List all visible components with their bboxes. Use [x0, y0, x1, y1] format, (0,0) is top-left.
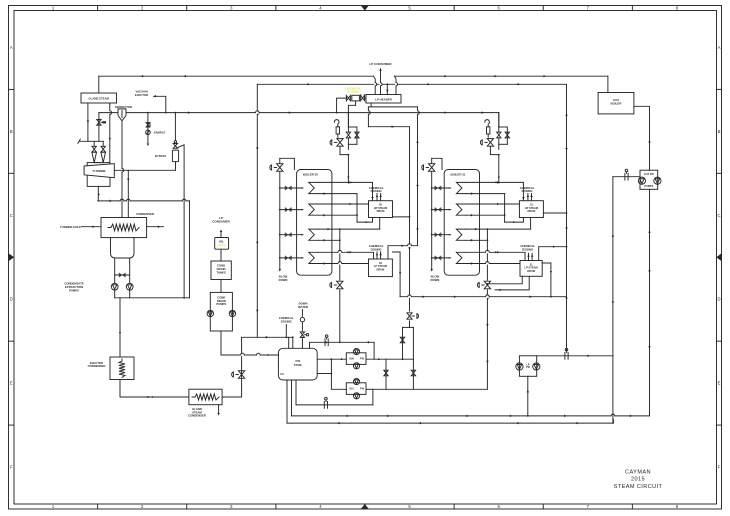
wire downcomer HP boiler 30 [356, 194, 358, 223]
strainer on spill row [323, 402, 325, 409]
svg-text:AUX FW: AUX FW [644, 173, 655, 176]
svg-text:1: 1 [52, 5, 55, 10]
wire coil4 return boiler 30 [318, 263, 368, 265]
svg-text:8: 8 [676, 5, 679, 10]
wire bypass relief diagonal [178, 145, 185, 148]
wire lower spill row [296, 404, 373, 406]
wire coil1 return boiler 30 [318, 193, 357, 195]
steam station 31 parallel valves [499, 126, 508, 128]
svg-text:D: D [10, 297, 13, 302]
wire dump drop to condenser [127, 170, 129, 217]
valve fw control [407, 313, 412, 319]
LP steam drum 30 [369, 259, 393, 277]
aux fw pumps box [640, 170, 658, 189]
svg-text:3: 3 [230, 5, 233, 10]
svg-text:PUMPS: PUMPS [216, 302, 226, 306]
boiler 30 feed row 1 [280, 187, 303, 189]
wire LP consumer riser [380, 69, 382, 95]
boiler 31 feed row 3 [432, 234, 451, 236]
ejector condenser box [110, 357, 134, 380]
sample cooler branch [147, 113, 149, 143]
svg-text:BOILER: BOILER [611, 102, 623, 106]
wire coil4 return boiler 31 [466, 263, 520, 265]
wire aux fw suction from bus A [649, 189, 651, 416]
svg-text:4: 4 [319, 504, 322, 509]
wire fw tank bottom drops [286, 380, 288, 423]
svg-text:5: 5 [408, 5, 411, 10]
svg-text:B: B [10, 129, 13, 134]
wire bus B end riser jog [612, 420, 614, 424]
boiler 31 coil 2 [456, 204, 466, 215]
svg-text:BYPASS: BYPASS [155, 154, 166, 158]
wire lp header drop to east vertical [368, 126, 409, 128]
wire boiler31 drain to fw bus [486, 290, 488, 390]
valve fw station left [400, 337, 404, 343]
HP steam drum 30 [369, 201, 393, 218]
steam station 30 parallel valves [348, 126, 357, 128]
fw pump group 30 [346, 353, 366, 365]
svg-text:6: 6 [498, 504, 501, 509]
wire lp fw discharge header [537, 355, 613, 357]
svg-text:E: E [718, 381, 721, 386]
svg-text:DOSING: DOSING [281, 320, 292, 324]
wire boiler drain boiler 31 [486, 229, 488, 280]
condenser hotwell [111, 238, 135, 258]
svg-text:TURBINE: TURBINE [93, 169, 106, 173]
chemical dosing arrows HP 31 [527, 194, 529, 201]
wire turbine to bypass link line [115, 169, 176, 171]
blowdown valve boiler 30 [277, 164, 283, 172]
wire LP drum31 bottom circulation B [495, 276, 529, 290]
svg-text:LP HEADER: LP HEADER [375, 97, 393, 101]
valve town water [300, 332, 304, 337]
svg-text:SEPERATOR: SEPERATOR [115, 105, 132, 109]
wire HP drum30 steam outlet [393, 216, 410, 218]
svg-text:2: 2 [141, 504, 144, 509]
wire L1 east drop to header [394, 76, 396, 94]
wire gland steam down leg east [109, 103, 111, 163]
town water meter [301, 310, 303, 317]
wire blowdown line boiler 30 [279, 171, 281, 269]
svg-text:WATER: WATER [298, 305, 308, 309]
wire main steam header L1 west [99, 75, 374, 77]
wire coil3 return boiler 30 [318, 239, 340, 241]
valve gsc riser [238, 371, 244, 379]
wire coil2 return boiler 30 [318, 214, 357, 216]
fw pump group 31 [346, 383, 366, 395]
chemical dosing arrows HP 30 [376, 194, 378, 201]
frame zone ticks top/bottom [97, 6, 99, 11]
wire coil1 riser boiler 30 [318, 182, 372, 200]
wire LP drum31 bottom circulation A [487, 276, 522, 284]
wire blowdown line boiler 31 [431, 171, 433, 269]
turbine casing [87, 163, 110, 187]
svg-text:F: F [10, 465, 13, 470]
svg-text:TANKS: TANKS [216, 270, 226, 274]
svg-text:DRUM: DRUM [527, 269, 535, 273]
wire LP drum31 steam outlet [539, 247, 567, 261]
svg-text:U31: U31 [349, 388, 354, 391]
wire coil4 riser boiler 30 [318, 252, 373, 259]
wire turbine exhaust run to east [98, 200, 190, 202]
frame center triangle right [717, 253, 722, 261]
svg-text:STEAM CIRCUIT: STEAM CIRCUIT [614, 484, 663, 490]
svg-text:TANK: TANK [294, 363, 303, 367]
turbine inlet valves [93, 141, 95, 146]
wire downcomer HP boiler 31 [504, 194, 506, 223]
chemical dosing injector valve set [352, 95, 360, 101]
svg-text:LP CONSUMER: LP CONSUMER [369, 62, 392, 66]
valve fw crossover B [412, 359, 414, 389]
boiler 30 feed row 3 [280, 234, 303, 236]
boiler 30 coil 4 [309, 252, 319, 263]
wire hotwell to pumps [114, 258, 116, 283]
svg-text:SAMPLE: SAMPLE [154, 131, 166, 135]
wire coil1 riser boiler 31 [466, 182, 524, 200]
wire LP drum30 steam outlet [388, 246, 418, 259]
wire fw station split [403, 326, 414, 328]
wire boiler30 drain to recirc [339, 290, 341, 343]
valve station 30 control [337, 139, 343, 147]
LP steam drum 31 [520, 261, 542, 277]
boiler 31 coil 1 [456, 182, 466, 193]
wire fw recirc line [310, 341, 375, 343]
frame center triangle top [361, 6, 369, 11]
wire vacuum ejector branch [154, 96, 166, 112]
wire coil4 riser boiler 31 [466, 252, 525, 260]
wire separator drain to condenser [121, 121, 123, 218]
wire fw discharge bus [373, 388, 487, 390]
wire turbine exhaust [97, 186, 99, 201]
boiler 30 coil 1 [309, 182, 319, 193]
wire bypass relief drop to condensate x184.1 [183, 145, 185, 298]
wire HP drum31 steam outlet [543, 212, 566, 214]
svg-text:3: 3 [230, 504, 233, 509]
bypass valve [174, 141, 176, 143]
wire coil3 riser boiler 31 [466, 228, 531, 230]
steam station 31 reducing valve w/ pilot [498, 144, 500, 149]
boiler 31 feed row 4 [432, 257, 451, 259]
chemical dosing arrows LP 31 [528, 253, 530, 260]
valve station 31 control [487, 139, 493, 147]
blowdown valve boiler 31 [429, 164, 435, 172]
boiler 30 feed row 2 [280, 209, 303, 211]
wire injector down leg [355, 101, 357, 105]
frame center triangle bottom [361, 504, 369, 509]
steam station 31 inlet [498, 113, 500, 127]
wire boiler drain boiler 30 [339, 229, 341, 280]
valve gland steam supply [97, 120, 101, 126]
wire LP drum31 right link [542, 263, 551, 297]
wire gsc outlet to valve riser [222, 337, 242, 397]
wire bypass branch from main line [174, 113, 176, 141]
svg-text:BOILER 31: BOILER 31 [451, 173, 466, 177]
wire L1 drop to aux boiler [607, 76, 609, 92]
boiler 31 coil 3 [456, 229, 466, 240]
svg-text:CONDENSER: CONDENSER [88, 364, 106, 368]
wire main steam header L1 east [394, 75, 608, 77]
drain valve boiler 30 [337, 281, 343, 289]
FW tank [278, 348, 317, 380]
svg-text:D: D [717, 297, 720, 302]
boiler 31 vessel [444, 170, 479, 276]
svg-text:DRUM: DRUM [377, 209, 385, 213]
svg-text:EJECTOR: EJECTOR [135, 93, 148, 97]
svg-text:7: 7 [587, 504, 590, 509]
condenser tubes zigzag [108, 224, 139, 231]
svg-text:DOSING: DOSING [522, 248, 533, 252]
svg-text:B: B [718, 129, 721, 134]
steam station 30 inlet [347, 113, 349, 127]
svg-text:DRUM: DRUM [377, 267, 385, 271]
wire coil2 return boiler 31 [466, 214, 505, 216]
svg-text:BOILER 30: BOILER 30 [303, 173, 318, 177]
boiler 30 vessel [297, 170, 332, 276]
boiler 31 coil 4 [456, 252, 466, 263]
svg-text:DOWN: DOWN [279, 278, 288, 282]
gland steam condenser box [189, 389, 222, 405]
wire coil3 riser boiler 30 [318, 228, 379, 230]
wire aux boiler feed [634, 106, 650, 170]
svg-text:F: F [718, 465, 721, 470]
valve fw crossover A [385, 359, 387, 389]
svg-text:TURBINE HOLE: TURBINE HOLE [60, 225, 81, 229]
wire main steam feed drop [98, 113, 100, 142]
wire coil1 return boiler 31 [466, 193, 505, 195]
wire bottom bus B [287, 422, 613, 424]
boiler 30 coil 2 [309, 204, 319, 215]
wire coil2 riser boiler 31 [466, 203, 520, 205]
wire gland manifold with break [79, 140, 103, 142]
wire LP drum30 right link [392, 252, 400, 297]
gsc drain arrow [218, 405, 220, 413]
svg-text:6: 6 [498, 5, 501, 10]
svg-text:C: C [717, 213, 720, 218]
svg-text:8: 8 [676, 504, 679, 509]
wire oil heater top arrow [220, 232, 222, 238]
wire ejector condenser outlet [120, 380, 189, 398]
svg-text:PUMPS: PUMPS [69, 288, 79, 292]
svg-text:CONDENSER: CONDENSER [136, 212, 154, 216]
wire main steam to station31 corner [498, 113, 500, 127]
svg-text:A: A [10, 45, 13, 50]
svg-text:1: 1 [52, 504, 55, 509]
wire tanks to pumps [220, 280, 222, 293]
wire branch to pump 31 [331, 359, 346, 389]
wire fw tank recirc riser [309, 342, 311, 348]
steam station 30 reducing valve w/ pilot [347, 144, 349, 149]
svg-text:7: 7 [587, 5, 590, 10]
wire L1 drop to gland steam [98, 76, 100, 92]
svg-text:CONSUMER: CONSUMER [212, 220, 230, 224]
svg-text:PUMPS: PUMPS [644, 185, 653, 188]
wire LP steam riser B [417, 107, 419, 246]
drain valve boiler 31 [484, 281, 490, 289]
wire fw tank lower outlet [317, 373, 331, 375]
strainer on aux suction [624, 173, 626, 180]
svg-text:DOSING: DOSING [371, 248, 382, 252]
strainer on recirc [324, 339, 326, 346]
svg-text:FW: FW [526, 366, 530, 369]
svg-text:FW: FW [360, 388, 365, 391]
HP steam drum 31 [519, 201, 543, 218]
frame zone ticks left/right [9, 88, 15, 90]
svg-text:DOSING: DOSING [347, 90, 360, 94]
svg-text:FW: FW [360, 358, 365, 361]
wire header L2 [257, 83, 566, 85]
svg-text:2015: 2015 [631, 477, 645, 483]
wire riser x612.9 [612, 356, 614, 423]
svg-text:E: E [10, 381, 13, 386]
wire cond drain pumps to FW tank [221, 331, 278, 355]
wire injector inlet from main steam line [337, 98, 347, 113]
wire tank top entry stub B [292, 337, 294, 348]
condenser box [101, 218, 147, 238]
condensate extraction pumps [111, 283, 118, 290]
wire pump31 discharge [366, 388, 373, 390]
svg-text:2: 2 [141, 5, 144, 10]
wire LP header bottom drop [370, 103, 372, 107]
wire L2 feed stub to header [386, 84, 388, 94]
svg-text:4: 4 [319, 5, 322, 10]
wire drop at x189.5 [189, 201, 191, 298]
cond drain pumps box [210, 292, 232, 331]
wire fw tank outlet to pump 30 [317, 358, 346, 360]
svg-text:CAYMAN: CAYMAN [625, 470, 651, 476]
svg-text:CONDENSER: CONDENSER [188, 414, 206, 418]
boiler 30 coil 3 [309, 229, 319, 240]
wire coil2 riser boiler 30 [318, 203, 368, 205]
wire blowdown/drain header y296.7 [400, 296, 566, 298]
frame center triangle left [9, 253, 15, 261]
wire spill row up to pump2 discharge [372, 389, 374, 405]
LP header box [366, 95, 401, 104]
svg-text:5: 5 [408, 504, 411, 509]
turbine U1 body flag [84, 164, 114, 178]
aux boiler box [598, 93, 634, 114]
wire bottom bus A [292, 415, 650, 417]
wire lp fw suction [527, 376, 529, 416]
oil heaters box [215, 238, 229, 250]
strainer on discharge header [564, 352, 566, 359]
svg-text:HTRS: HTRS [218, 244, 226, 248]
wire chemical dosing to tank [285, 325, 287, 338]
wire main steam line y112.6 [99, 112, 118, 114]
svg-text:GLAND STEAM: GLAND STEAM [88, 97, 109, 101]
svg-text:A: A [718, 45, 721, 50]
wire oil to cond drain tanks [220, 249, 222, 261]
wire coil3 return boiler 31 [466, 239, 488, 241]
wire injector to LP header [365, 97, 366, 99]
svg-text:V.V: V.V [280, 372, 284, 376]
svg-text:DRUM: DRUM [528, 209, 536, 213]
wire riser to FW tank top [242, 336, 293, 338]
bypass desuperheater vessel [172, 150, 178, 162]
check valves condensate [115, 274, 130, 276]
wire pumps join [114, 290, 116, 298]
svg-text:U30: U30 [349, 358, 354, 361]
wire L2 right drop to FW discharge header [566, 84, 568, 350]
boiler 30 feed row 4 [280, 257, 303, 259]
turbine inlet nozzles [92, 152, 97, 163]
lp fw pumps box [519, 356, 536, 377]
wire condensate down to ejector condenser [119, 298, 121, 357]
wire bypass outlet to turbine exhaust link [175, 162, 177, 171]
cond drain tanks box [211, 261, 231, 280]
svg-text:DOWN: DOWN [430, 278, 439, 282]
wire pump30 riser to recirc [373, 342, 375, 359]
chemical dosing arrows LP 30 [376, 252, 378, 259]
separator symbol [118, 109, 126, 121]
wire gland steam down leg west [87, 103, 89, 141]
svg-text:C: C [10, 213, 13, 218]
condenser outlet stub [147, 226, 164, 228]
wire L1 west drop to header [374, 76, 376, 94]
boiler 31 feed row 2 [432, 209, 451, 211]
fw control station [409, 127, 411, 311]
wire pump30 discharge [366, 358, 413, 360]
wire L2 left drop (long vertical) [256, 84, 258, 337]
boiler 31 feed row 1 [432, 187, 451, 189]
gland steam box [81, 93, 117, 103]
wire aux fw suction link [613, 176, 640, 178]
